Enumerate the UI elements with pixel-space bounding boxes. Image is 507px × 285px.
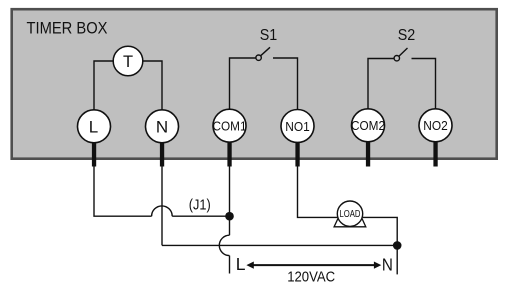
wire COM2 to switch S2 [368, 59, 394, 109]
svg-text:N: N [156, 118, 168, 137]
terminal COM2 [351, 109, 385, 142]
terminal pin NO1 [295, 142, 299, 167]
label S1 [260, 27, 278, 44]
svg-text:S2: S2 [398, 27, 416, 44]
wire NO1 down [298, 167, 338, 218]
switch S1 pivot [256, 55, 261, 60]
switch S2 pivot [394, 56, 399, 61]
timer box enclosure [12, 9, 497, 159]
wire N down [161, 167, 163, 246]
wire L to T [94, 61, 113, 110]
terminal COM1 [213, 109, 247, 142]
wire COM1 to switch S1 [230, 58, 257, 109]
terminal pin L [92, 142, 96, 167]
svg-text:COM1: COM1 [213, 120, 247, 134]
wire switch S1 to NO1 [273, 58, 298, 110]
terminal pin N [160, 142, 164, 167]
wire hop over N bus [219, 235, 229, 255]
wire load to source N [363, 217, 398, 245]
junction J1 [225, 212, 234, 221]
label 120VAC [287, 268, 335, 285]
wire hop over N line [152, 206, 173, 216]
wire L down [94, 167, 152, 217]
svg-text:L: L [236, 254, 246, 274]
svg-text:(J1): (J1) [189, 197, 211, 214]
svg-text:TIMER BOX: TIMER BOX [27, 20, 108, 38]
svg-text:NO1: NO1 [285, 120, 310, 134]
svg-text:N: N [382, 254, 393, 274]
wire to junction J1 [172, 215, 229, 217]
terminal N [146, 110, 179, 143]
terminal pin COM1 [227, 142, 231, 167]
terminal L [78, 110, 111, 143]
load base [334, 217, 366, 226]
svg-text:S1: S1 [260, 27, 278, 44]
terminal NO2 [419, 109, 452, 142]
switch S2 blade [399, 48, 408, 56]
wire T to N [143, 61, 162, 110]
terminal pin COM2 [366, 141, 370, 167]
label source L [236, 254, 246, 274]
wire COM1 down to J1 [229, 167, 231, 217]
junction source N [393, 241, 402, 250]
label source N [382, 254, 393, 274]
wire N bus to source N [162, 244, 397, 246]
dimension arrow 120VAC [246, 262, 381, 269]
svg-text:LOAD: LOAD [340, 209, 361, 220]
switch S1 blade [261, 47, 270, 55]
svg-text:T: T [123, 53, 133, 71]
svg-text:L: L [89, 118, 98, 137]
wire source N down [396, 245, 398, 274]
timer contact T [113, 46, 143, 76]
svg-text:COM2: COM2 [351, 119, 385, 133]
svg-text:120VAC: 120VAC [287, 268, 335, 285]
wire J1 down [229, 216, 231, 235]
load LOAD [337, 201, 362, 226]
svg-text:NO2: NO2 [423, 119, 448, 133]
label (J1) [189, 197, 211, 214]
terminal pin NO2 [433, 141, 437, 167]
wire switch S2 to NO2 [412, 59, 436, 109]
terminal NO1 [281, 110, 314, 143]
wire to source L [229, 256, 231, 274]
label TIMER BOX [27, 20, 108, 38]
label S2 [398, 27, 416, 44]
